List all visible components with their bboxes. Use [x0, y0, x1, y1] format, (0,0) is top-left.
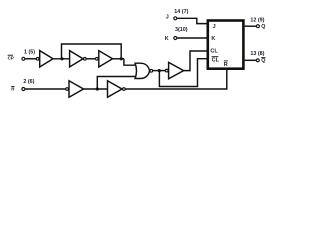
svg-text:12 (9): 12 (9) — [250, 17, 264, 23]
wire feedback loop — [62, 44, 122, 59]
wire NOR to inverter E — [153, 70, 166, 72]
pin label 1 (5) — [24, 49, 35, 55]
inverter D output bubble — [123, 88, 126, 91]
svg-text:CP: CP — [8, 55, 14, 60]
inverter 1 input bubble — [36, 57, 39, 60]
node Y junction dot — [120, 57, 123, 60]
wire node W down to CL-bar input — [159, 59, 206, 87]
svg-text:J: J — [213, 24, 216, 30]
inverter D triangle — [108, 81, 123, 97]
pin label 13 (8) — [250, 51, 264, 57]
node R input label — [11, 87, 15, 92]
node K input label — [165, 36, 169, 42]
inverter E triangle — [169, 62, 184, 78]
wire step down to NOR input 1 — [124, 59, 136, 65]
buffer A output bubble — [83, 57, 86, 60]
pin label 3(10) — [175, 27, 188, 33]
buffer B triangle — [99, 51, 113, 67]
node Z junction dot — [96, 87, 99, 90]
terminal K — [174, 37, 177, 40]
wire R to inverter C — [25, 88, 65, 90]
wire B output to node Y — [113, 58, 124, 60]
terminal J — [174, 17, 177, 20]
inverter E input bubble — [165, 69, 168, 72]
node Q label — [261, 24, 265, 30]
pin label 2 (6) — [23, 79, 34, 85]
node CP input label — [8, 55, 14, 60]
wire A to B — [87, 58, 96, 60]
overline of CP — [8, 54, 13, 56]
pin label 14 (7) — [174, 9, 188, 15]
svg-text:K: K — [211, 36, 215, 42]
inverter C input bubble — [66, 88, 69, 91]
svg-text:2 (6): 2 (6) — [23, 79, 34, 85]
terminal Q-bar — [256, 59, 259, 62]
label J pin — [213, 24, 216, 30]
NOR output bubble — [150, 69, 153, 72]
wire CP to inverter 1 — [25, 58, 36, 60]
svg-text:Q: Q — [261, 58, 265, 64]
NOR gate U1 — [135, 63, 150, 78]
inverter 1 triangle — [40, 51, 53, 67]
wire inverter1 to node X — [53, 58, 70, 60]
flip-flop U2 body — [208, 21, 244, 69]
node J input label — [166, 15, 169, 21]
wire K to flip-flop — [177, 37, 207, 39]
wire branch up to NOR input 2 — [97, 77, 136, 90]
label R-bar pin — [224, 62, 228, 68]
overline of R — [11, 85, 14, 87]
svg-text:R: R — [11, 87, 15, 92]
inverter C triangle — [69, 81, 84, 97]
wire Q output — [245, 25, 256, 27]
node Q-bar label — [261, 58, 265, 64]
label K pin — [211, 36, 215, 42]
wire R-bar rail to flip-flop — [126, 70, 227, 89]
svg-text:R: R — [224, 62, 228, 68]
svg-text:1 (5): 1 (5) — [24, 49, 35, 55]
node X junction dot — [60, 57, 63, 60]
pin label 12 (9) — [250, 17, 264, 23]
svg-text:14 (7): 14 (7) — [174, 9, 188, 15]
wire C to D — [84, 88, 108, 90]
overline of Q-bar — [261, 57, 265, 59]
label CL-bar pin — [212, 57, 220, 63]
buffer B input bubble — [96, 57, 99, 60]
wire J to flip-flop — [177, 18, 207, 23]
wire inverter E to CL input — [184, 51, 207, 71]
overline of R-bar — [224, 60, 228, 62]
terminal CP — [22, 57, 25, 60]
svg-text:CL: CL — [210, 49, 218, 55]
label CL pin — [210, 49, 218, 55]
wire Q-bar output — [245, 59, 256, 61]
svg-text:Q: Q — [261, 24, 265, 30]
terminal R — [22, 88, 25, 91]
svg-text:J: J — [166, 15, 169, 21]
node W junction dot — [158, 69, 161, 72]
buffer A triangle — [70, 51, 83, 67]
overline of CL-bar — [212, 56, 219, 58]
svg-text:13 (8): 13 (8) — [250, 51, 264, 57]
svg-text:CL: CL — [212, 57, 220, 63]
svg-text:K: K — [165, 36, 169, 42]
terminal Q — [256, 25, 259, 28]
svg-text:3(10): 3(10) — [175, 27, 188, 33]
